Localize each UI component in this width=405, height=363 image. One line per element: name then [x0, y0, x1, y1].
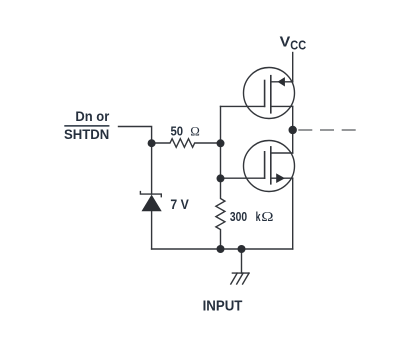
svg-text:Ω: Ω — [190, 125, 200, 139]
svg-text:Dn or: Dn or — [75, 109, 110, 124]
svg-text:Ω: Ω — [261, 209, 273, 224]
svg-text:50: 50 — [171, 124, 184, 138]
svg-text:7 V: 7 V — [170, 197, 188, 212]
svg-text:INPUT: INPUT — [203, 298, 243, 314]
svg-text:CC: CC — [290, 38, 306, 52]
svg-text:SHTDN: SHTDN — [64, 126, 109, 142]
svg-text:V: V — [280, 34, 291, 51]
svg-text:300: 300 — [230, 209, 247, 224]
svg-text:k: k — [256, 209, 261, 224]
